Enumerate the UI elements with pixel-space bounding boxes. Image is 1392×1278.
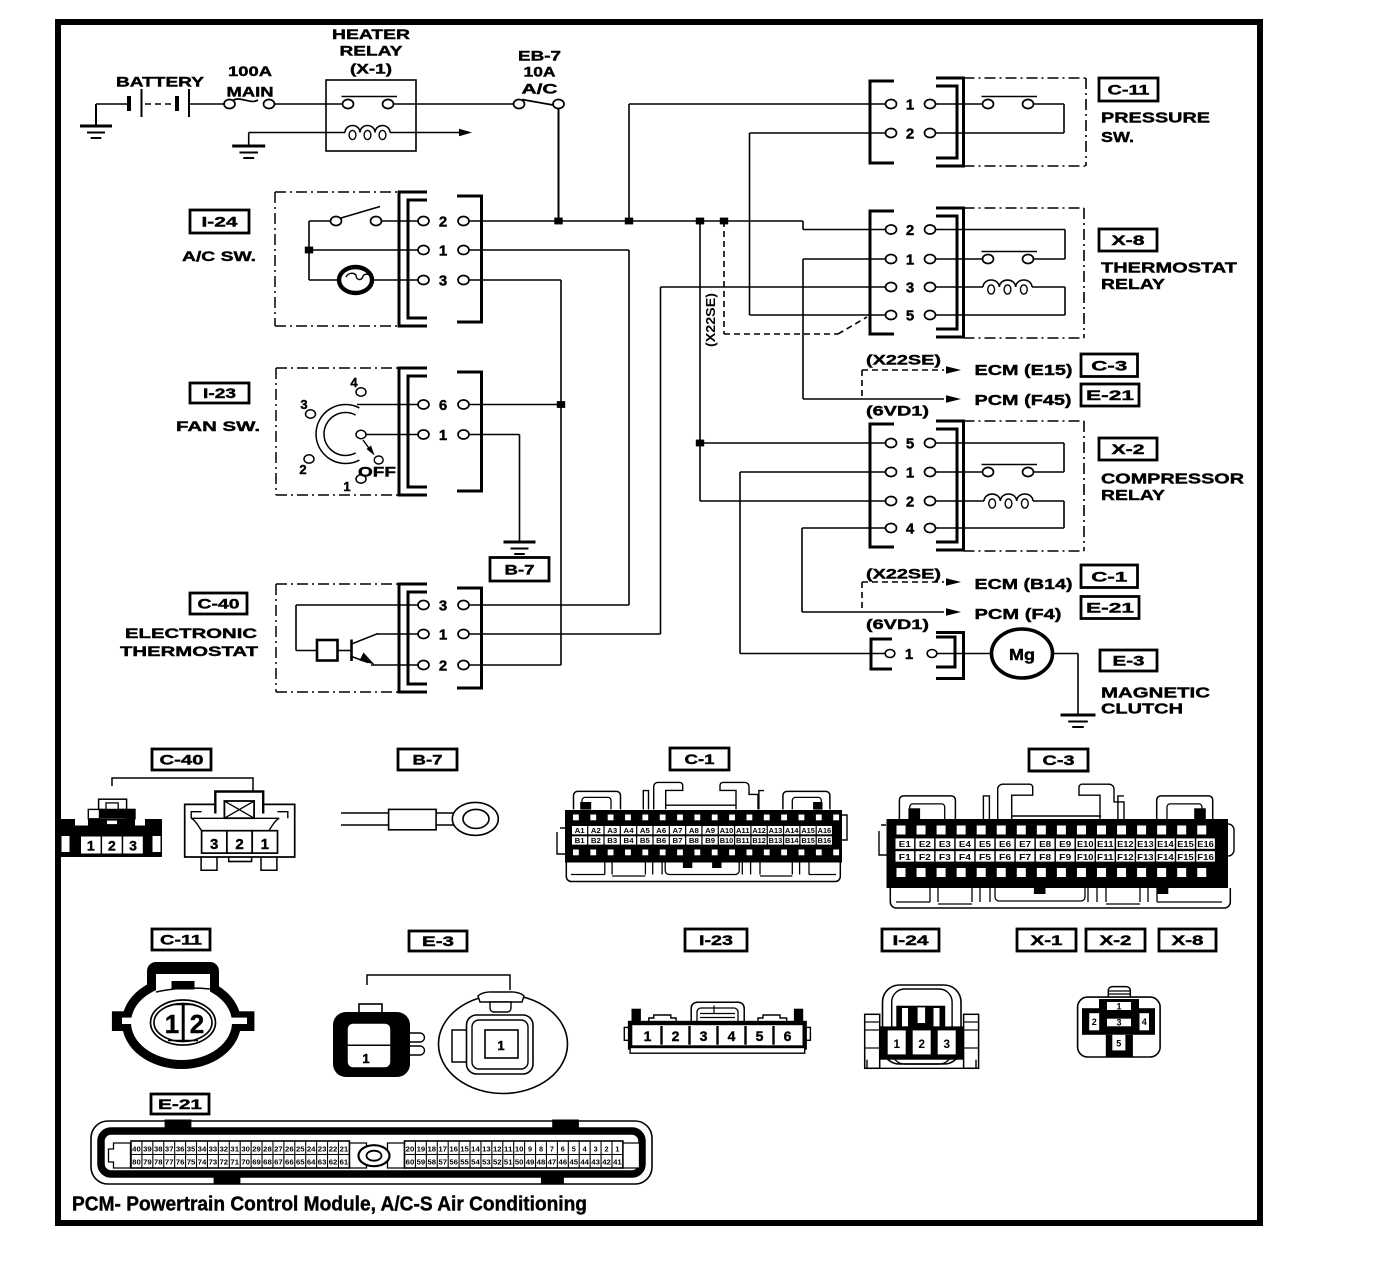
E-21 PCM connector view	[91, 1120, 652, 1185]
svg-text:C-40: C-40	[198, 596, 240, 612]
svg-text:2: 2	[439, 658, 447, 675]
svg-text:74: 74	[198, 1158, 208, 1167]
svg-text:4: 4	[728, 1028, 736, 1044]
wire X-2 pin 2	[700, 500, 886, 502]
wire X-2 pin 1 to magnetic clutch	[740, 471, 886, 473]
svg-text:E-3: E-3	[422, 933, 454, 949]
I-23 connector view	[624, 1002, 810, 1053]
svg-text:(X22SE): (X22SE)	[703, 293, 718, 347]
svg-text:F4: F4	[959, 852, 971, 862]
svg-text:PRESSURE: PRESSURE	[1101, 110, 1210, 127]
svg-text:17: 17	[438, 1145, 447, 1154]
svg-text:1: 1	[905, 646, 913, 663]
svg-text:1: 1	[261, 836, 269, 853]
svg-text:B13: B13	[769, 838, 783, 845]
wire to pin 1	[377, 633, 418, 635]
E-3 gallery leader	[367, 975, 510, 990]
svg-text:C-3: C-3	[1091, 357, 1127, 373]
svg-text:25: 25	[296, 1145, 305, 1154]
svg-text:HEATER: HEATER	[332, 26, 410, 42]
svg-text:4: 4	[1142, 1017, 1147, 1027]
svg-text:43: 43	[591, 1158, 600, 1167]
svg-text:A6: A6	[656, 828, 666, 835]
svg-text:1: 1	[439, 243, 447, 260]
E-21 ref box lower	[1081, 597, 1139, 619]
wire battery to ground	[96, 103, 129, 105]
svg-text:PCM (F4): PCM (F4)	[975, 606, 1062, 623]
svg-text:B2: B2	[591, 838, 601, 845]
svg-text:21: 21	[340, 1145, 349, 1154]
svg-text:28: 28	[263, 1145, 272, 1154]
wire X-8 pin 3 to C-40 pin 1	[661, 286, 886, 288]
svg-text:6: 6	[439, 397, 447, 414]
svg-text:5: 5	[906, 436, 914, 453]
C-40 label	[190, 593, 247, 614]
svg-text:B8: B8	[689, 838, 699, 845]
svg-text:20: 20	[406, 1145, 415, 1154]
wire wiper to pin 1	[366, 434, 418, 436]
node fan sw pin6	[557, 401, 565, 408]
svg-text:Mg: Mg	[1009, 647, 1035, 664]
svg-text:B-7: B-7	[413, 752, 443, 768]
wire switch to pin 2	[382, 220, 419, 222]
svg-text:C-1: C-1	[1091, 568, 1127, 584]
C-11 label	[1099, 78, 1158, 101]
svg-text:29: 29	[252, 1145, 261, 1154]
wire to pin 1	[309, 249, 418, 251]
svg-text:(X-1): (X-1)	[350, 61, 392, 77]
thermostat relay coil	[936, 286, 983, 288]
svg-text:11: 11	[504, 1145, 513, 1154]
fan switch position 2	[304, 455, 314, 463]
svg-text:A5: A5	[640, 828, 650, 835]
svg-text:51: 51	[504, 1158, 513, 1167]
svg-text:EB-7: EB-7	[518, 48, 561, 64]
wire to pin 2	[371, 664, 418, 666]
B-7 ring terminal	[341, 802, 498, 835]
svg-text:3: 3	[594, 1145, 598, 1154]
I-24 connector view	[865, 985, 979, 1068]
wire X-8 pin 1 / pin 2 feeds	[803, 258, 886, 260]
svg-text:I-23: I-23	[203, 385, 236, 401]
electronic thermostat connector C-40	[399, 584, 427, 692]
svg-text:C-3: C-3	[1043, 752, 1075, 768]
thermostat relay connector X-8	[870, 211, 894, 334]
svg-text:4: 4	[350, 375, 358, 390]
svg-text:3: 3	[439, 598, 447, 615]
svg-text:E11: E11	[1097, 839, 1114, 849]
magnetic clutch connector	[871, 639, 892, 669]
svg-text:(6VD1): (6VD1)	[866, 616, 929, 632]
svg-text:23: 23	[318, 1145, 327, 1154]
svg-text:1: 1	[906, 97, 914, 114]
svg-text:THERMOSTAT: THERMOSTAT	[1101, 260, 1237, 277]
svg-text:E-21: E-21	[1086, 387, 1134, 403]
svg-text:1: 1	[906, 252, 914, 269]
svg-text:E9: E9	[1059, 839, 1071, 849]
node rail pressure-sw riser	[625, 218, 633, 225]
svg-text:45: 45	[569, 1158, 578, 1167]
svg-text:68: 68	[263, 1158, 272, 1167]
svg-text:75: 75	[187, 1158, 196, 1167]
svg-text:PCM- Powertrain Control Module: PCM- Powertrain Control Module, A/C-S Ai…	[72, 1194, 587, 1216]
pressure switch contacts	[936, 103, 983, 105]
svg-text:B12: B12	[752, 838, 766, 845]
wire X-2 pin 4	[802, 527, 886, 529]
svg-text:18: 18	[428, 1145, 437, 1154]
svg-text:B4: B4	[624, 838, 634, 845]
svg-text:22: 22	[329, 1145, 338, 1154]
svg-text:E6: E6	[999, 839, 1011, 849]
wire fan pin 1 to ground B-7	[469, 434, 520, 436]
svg-text:PCM (F45): PCM (F45)	[975, 392, 1072, 409]
wire pressure sw pin 1 riser	[628, 104, 630, 221]
svg-text:ELECTRONIC: ELECTRONIC	[125, 625, 257, 641]
svg-text:THERMOSTAT: THERMOSTAT	[120, 643, 259, 659]
svg-text:F8: F8	[1039, 852, 1051, 862]
wire A/C switch common	[308, 221, 310, 280]
svg-text:FAN SW.: FAN SW.	[176, 418, 260, 434]
pressure switch connector	[870, 81, 894, 163]
node rail X-2 drop	[696, 218, 704, 225]
svg-text:1: 1	[1116, 1002, 1121, 1012]
svg-text:ECM (B14): ECM (B14)	[975, 576, 1073, 593]
svg-text:46: 46	[559, 1158, 568, 1167]
svg-text:B-7: B-7	[505, 561, 535, 577]
svg-text:2: 2	[906, 222, 914, 239]
svg-text:13: 13	[482, 1145, 491, 1154]
svg-text:15: 15	[460, 1145, 469, 1154]
B-7 label	[490, 558, 549, 582]
svg-text:E5: E5	[979, 839, 991, 849]
E-3 gallery label	[409, 931, 467, 951]
svg-text:33: 33	[209, 1145, 218, 1154]
C-1 connector view	[557, 782, 847, 881]
svg-text:A15: A15	[801, 828, 815, 835]
svg-text:A12: A12	[752, 828, 766, 835]
svg-text:6: 6	[561, 1145, 565, 1154]
B-7 gallery label	[398, 749, 457, 770]
svg-text:7: 7	[550, 1145, 554, 1154]
svg-text:1: 1	[362, 1051, 369, 1066]
fan switch position 1	[356, 475, 366, 483]
I-24 gallery label	[882, 929, 939, 951]
A/C switch dash-dot box	[275, 191, 399, 193]
ground (heater relay)	[248, 133, 250, 146]
svg-text:24: 24	[307, 1145, 317, 1154]
svg-text:X-8: X-8	[1112, 232, 1145, 248]
fan switch connector I-23	[399, 368, 427, 495]
svg-text:8: 8	[539, 1145, 543, 1154]
svg-text:34: 34	[198, 1145, 208, 1154]
svg-text:3: 3	[439, 273, 447, 290]
svg-text:58: 58	[428, 1158, 437, 1167]
ground B-7	[504, 541, 536, 544]
svg-text:2: 2	[906, 494, 914, 511]
svg-text:A13: A13	[769, 828, 783, 835]
svg-text:CLUTCH: CLUTCH	[1101, 701, 1183, 718]
svg-text:F10: F10	[1077, 852, 1094, 862]
svg-text:F7: F7	[1019, 852, 1031, 862]
wire EB-7 down to rail	[558, 109, 560, 222]
svg-text:16: 16	[449, 1145, 458, 1154]
svg-text:F2: F2	[919, 852, 931, 862]
svg-text:E10: E10	[1077, 839, 1094, 849]
svg-text:RELAY: RELAY	[340, 43, 404, 59]
svg-text:X-2: X-2	[1100, 932, 1132, 948]
wire X-2 drop	[699, 221, 701, 501]
A/C switch connector I-24	[399, 192, 427, 326]
node rail EB-7	[554, 218, 562, 225]
svg-text:3: 3	[129, 838, 137, 854]
heater relay contacts	[342, 96, 398, 98]
svg-text:5: 5	[572, 1145, 576, 1154]
svg-text:E15: E15	[1177, 839, 1194, 849]
wire rail step to X-8 pin 2	[802, 221, 804, 230]
svg-text:10: 10	[515, 1145, 524, 1154]
svg-text:E14: E14	[1157, 839, 1174, 849]
svg-text:1: 1	[615, 1145, 619, 1154]
svg-text:53: 53	[482, 1158, 491, 1167]
C-40 gallery label	[152, 749, 211, 770]
svg-text:36: 36	[176, 1145, 185, 1154]
svg-text:5: 5	[906, 308, 914, 325]
svg-text:77: 77	[165, 1158, 174, 1167]
svg-text:2: 2	[1092, 1017, 1097, 1027]
C-11 connector view	[112, 962, 255, 1065]
svg-text:ECM (E15): ECM (E15)	[975, 362, 1073, 379]
svg-text:F1: F1	[899, 852, 911, 862]
wire fuse to heater relay	[274, 103, 343, 105]
fan switch rotor arc	[320, 409, 357, 460]
svg-text:X-8: X-8	[1172, 932, 1204, 948]
svg-text:2: 2	[108, 838, 116, 854]
svg-text:E4: E4	[959, 839, 971, 849]
svg-text:I-24: I-24	[893, 932, 929, 948]
svg-text:A/C SW.: A/C SW.	[182, 248, 256, 264]
svg-text:39: 39	[143, 1145, 152, 1154]
svg-text:X-1: X-1	[1031, 932, 1063, 948]
svg-text:1: 1	[439, 627, 447, 644]
svg-text:B14: B14	[785, 838, 799, 845]
svg-text:C-40: C-40	[160, 752, 204, 768]
svg-text:E-21: E-21	[158, 1096, 202, 1112]
svg-text:64: 64	[307, 1158, 317, 1167]
svg-text:MAGNETIC: MAGNETIC	[1101, 685, 1210, 702]
node X-2 pin 5	[696, 440, 704, 447]
svg-text:F5: F5	[979, 852, 991, 862]
svg-text:B9: B9	[705, 838, 715, 845]
svg-text:67: 67	[274, 1158, 283, 1167]
svg-text:50: 50	[515, 1158, 524, 1167]
svg-text:31: 31	[230, 1145, 239, 1154]
svg-text:1: 1	[165, 1009, 179, 1039]
svg-text:3: 3	[943, 1037, 950, 1051]
svg-text:A8: A8	[689, 828, 699, 835]
electronic thermostat dash-dot box	[276, 583, 399, 585]
svg-text:E-21: E-21	[1086, 600, 1134, 616]
C-1 gallery label	[670, 748, 729, 770]
compressor relay coil	[936, 500, 984, 502]
lamp (A/C switch illumination)	[309, 279, 343, 281]
svg-text:2: 2	[906, 126, 914, 143]
svg-text:6: 6	[784, 1028, 792, 1044]
svg-text:55: 55	[460, 1158, 469, 1167]
wire fan pin 6 to rail	[469, 404, 561, 406]
svg-text:70: 70	[241, 1158, 250, 1167]
E-21 center ring	[359, 1145, 390, 1166]
svg-text:A14: A14	[785, 828, 799, 835]
svg-text:2: 2	[299, 462, 306, 477]
svg-text:49: 49	[526, 1158, 535, 1167]
svg-text:F15: F15	[1177, 852, 1194, 862]
svg-text:RELAY: RELAY	[1101, 487, 1165, 504]
svg-text:I-24: I-24	[202, 214, 238, 230]
svg-text:E7: E7	[1019, 839, 1031, 849]
svg-text:3: 3	[1116, 1018, 1121, 1028]
svg-text:12: 12	[493, 1145, 502, 1154]
svg-text:42: 42	[602, 1158, 611, 1167]
svg-text:B10: B10	[720, 838, 734, 845]
C-40 gallery leader	[112, 778, 253, 792]
svg-text:A/C: A/C	[522, 81, 558, 97]
svg-text:A3: A3	[607, 828, 617, 835]
svg-text:66: 66	[285, 1158, 294, 1167]
svg-text:F11: F11	[1097, 852, 1114, 862]
wire C-40 pin2	[469, 664, 561, 666]
svg-text:MAIN: MAIN	[227, 84, 274, 100]
battery	[127, 96, 131, 111]
svg-text:78: 78	[154, 1158, 163, 1167]
E-3 label	[1100, 650, 1157, 671]
svg-text:52: 52	[493, 1158, 502, 1167]
svg-text:F14: F14	[1157, 852, 1174, 862]
svg-text:F16: F16	[1197, 852, 1214, 862]
X-1/X-2/X-8 connector view	[1078, 987, 1161, 1057]
X-8 gallery label	[1159, 929, 1216, 951]
svg-text:1: 1	[343, 479, 350, 494]
svg-text:F9: F9	[1059, 852, 1071, 862]
svg-text:59: 59	[417, 1158, 426, 1167]
svg-text:65: 65	[296, 1158, 305, 1167]
sensor transistor	[338, 650, 352, 652]
svg-text:5: 5	[756, 1028, 764, 1044]
svg-text:41: 41	[613, 1158, 622, 1167]
svg-text:F12: F12	[1117, 852, 1134, 862]
svg-text:38: 38	[154, 1145, 163, 1154]
svg-text:A16: A16	[818, 828, 832, 835]
svg-text:E2: E2	[919, 839, 931, 849]
svg-text:44: 44	[580, 1158, 590, 1167]
svg-text:COMPRESSOR: COMPRESSOR	[1101, 471, 1244, 488]
C-11 gallery label	[152, 929, 210, 950]
svg-text:3: 3	[210, 836, 218, 853]
svg-text:2: 2	[604, 1145, 608, 1154]
svg-text:RELAY: RELAY	[1101, 276, 1165, 293]
svg-text:X-2: X-2	[1112, 441, 1145, 457]
svg-text:3: 3	[700, 1028, 708, 1044]
svg-text:1: 1	[644, 1028, 652, 1044]
fan switch position 3	[306, 410, 316, 418]
wire relay to fuse EB-7	[394, 103, 515, 105]
svg-text:SW.: SW.	[1101, 129, 1134, 146]
svg-text:A7: A7	[673, 828, 683, 835]
svg-text:54: 54	[471, 1158, 481, 1167]
svg-text:2: 2	[672, 1028, 680, 1044]
E-3 female connector view	[439, 992, 568, 1094]
svg-text:C-11: C-11	[1108, 82, 1150, 98]
svg-text:63: 63	[318, 1158, 327, 1167]
ground (battery)	[95, 104, 97, 125]
svg-text:B1: B1	[575, 838, 585, 845]
magnetic clutch motor Mg	[936, 653, 991, 655]
svg-text:B7: B7	[673, 838, 683, 845]
svg-text:56: 56	[449, 1158, 458, 1167]
svg-text:2: 2	[190, 1009, 204, 1039]
C-3 connector view	[879, 771, 1234, 908]
fan switch position 4	[356, 388, 366, 396]
node rail X22SE dashed drop	[720, 218, 728, 225]
svg-text:79: 79	[143, 1158, 152, 1167]
svg-text:2: 2	[918, 1037, 925, 1051]
svg-text:2: 2	[439, 214, 447, 231]
heater relay coil	[249, 132, 345, 134]
E-21 ref box	[1081, 384, 1139, 406]
X-2 label	[1099, 438, 1157, 460]
wire arc to pin 6	[357, 404, 418, 406]
svg-text:5: 5	[1116, 1039, 1121, 1049]
thermostat relay contacts	[936, 258, 983, 260]
heater relay X-1 box	[326, 80, 416, 151]
svg-text:9: 9	[528, 1145, 532, 1154]
thermistor element	[317, 640, 338, 661]
svg-text:B11: B11	[736, 838, 750, 845]
svg-text:A11: A11	[736, 828, 750, 835]
svg-text:B15: B15	[801, 838, 815, 845]
wire ECM E15 dashed	[861, 370, 863, 399]
C-40 male connector view	[185, 792, 295, 871]
svg-text:F3: F3	[939, 852, 951, 862]
svg-text:71: 71	[230, 1158, 239, 1167]
svg-text:4: 4	[906, 521, 915, 538]
svg-text:27: 27	[274, 1145, 283, 1154]
svg-text:B6: B6	[656, 838, 666, 845]
svg-text:10A: 10A	[524, 64, 556, 80]
wire X-2 pin 5	[700, 442, 886, 444]
svg-text:37: 37	[165, 1145, 174, 1154]
compressor relay contacts	[936, 471, 983, 473]
svg-text:1: 1	[893, 1037, 900, 1051]
wire battery to fuse	[190, 103, 225, 105]
svg-text:B16: B16	[818, 838, 832, 845]
wire A/C sw pin1 to C-40 pin3	[469, 249, 629, 251]
svg-text:I-23: I-23	[699, 932, 733, 948]
node A/C sw pin1 branch	[305, 247, 313, 254]
svg-text:19: 19	[417, 1145, 426, 1154]
wire A/C sw pin3 down (to fan sw / C-40 pin2)	[469, 279, 561, 281]
I-23 gallery label	[685, 929, 747, 951]
svg-text:1: 1	[439, 427, 447, 444]
svg-text:BATTERY: BATTERY	[116, 74, 205, 90]
wire pressure sw pin 2	[750, 132, 886, 134]
svg-text:26: 26	[285, 1145, 294, 1154]
svg-text:73: 73	[209, 1158, 218, 1167]
svg-text:E13: E13	[1137, 839, 1154, 849]
svg-text:3: 3	[300, 397, 307, 412]
C-3 gallery label	[1029, 749, 1088, 771]
svg-text:A9: A9	[705, 828, 715, 835]
wire Mg to ground	[1052, 653, 1078, 655]
